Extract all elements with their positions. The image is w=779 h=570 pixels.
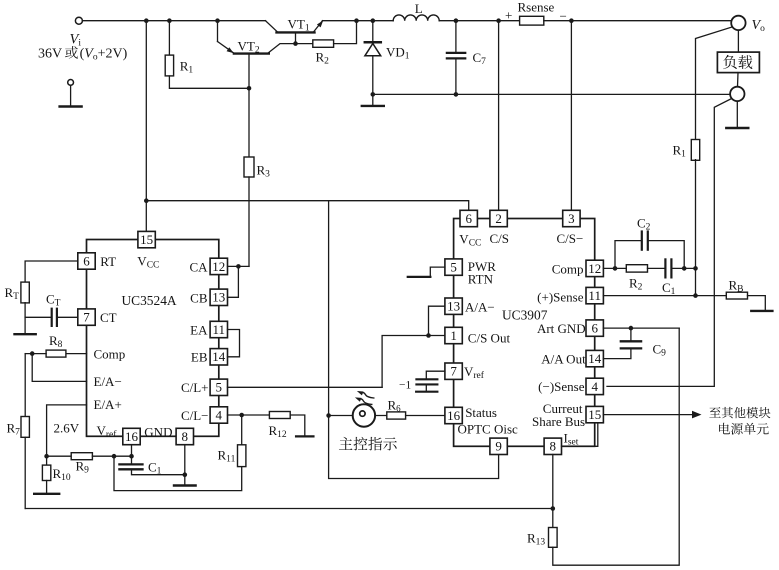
svg-text:C/S−: C/S−: [557, 231, 584, 246]
svg-text:CT: CT: [100, 310, 117, 325]
svg-text:RTN: RTN: [468, 272, 494, 287]
svg-text:Comp: Comp: [552, 261, 584, 276]
svg-text:15: 15: [588, 407, 601, 422]
svg-text:Vo: Vo: [752, 18, 766, 34]
svg-text:3: 3: [568, 211, 575, 226]
svg-text:R9: R9: [76, 458, 90, 475]
svg-text:R12: R12: [269, 423, 287, 440]
svg-text:1: 1: [450, 328, 457, 343]
svg-text:8: 8: [182, 429, 189, 444]
svg-text:R1: R1: [180, 59, 194, 76]
svg-text:C/L+: C/L+: [181, 380, 209, 395]
svg-text:R1: R1: [673, 143, 687, 160]
svg-text:R2: R2: [316, 50, 330, 67]
svg-text:E/A−: E/A−: [94, 374, 122, 389]
svg-text:5: 5: [216, 380, 223, 395]
svg-text:4: 4: [216, 407, 223, 422]
svg-text:12: 12: [588, 261, 601, 276]
svg-text:C7: C7: [473, 50, 487, 67]
svg-text:Rsense: Rsense: [518, 0, 555, 15]
svg-text:E/A+: E/A+: [94, 397, 122, 412]
svg-text:R8: R8: [49, 333, 63, 350]
svg-text:2: 2: [495, 211, 502, 226]
svg-text:VT1: VT1: [288, 16, 310, 33]
svg-text:CB: CB: [190, 290, 208, 305]
svg-text:(−)Sense: (−)Sense: [538, 379, 585, 394]
svg-text:4: 4: [591, 379, 598, 394]
svg-text:6: 6: [591, 321, 598, 336]
svg-text:RB: RB: [729, 278, 744, 295]
svg-text:C1: C1: [662, 280, 676, 297]
svg-text:C/S Out: C/S Out: [468, 330, 511, 345]
svg-text:−1: −1: [399, 380, 411, 392]
svg-text:R6: R6: [388, 398, 402, 414]
svg-text:13: 13: [447, 299, 460, 314]
svg-text:13: 13: [212, 290, 225, 305]
svg-text:14: 14: [588, 351, 602, 366]
svg-text:16: 16: [125, 429, 139, 444]
svg-text:C/S: C/S: [490, 231, 510, 246]
svg-text:R3: R3: [257, 163, 271, 180]
svg-text:7: 7: [450, 364, 457, 379]
svg-text:2.6V: 2.6V: [54, 420, 80, 435]
svg-text:8: 8: [550, 439, 557, 454]
svg-text:EB: EB: [191, 350, 208, 365]
svg-text:−: −: [560, 8, 567, 23]
svg-text:Share Bus: Share Bus: [532, 414, 585, 429]
svg-text:R11: R11: [218, 448, 236, 465]
svg-text:36V: 36V: [38, 47, 62, 62]
svg-text:(Vo+2V): (Vo+2V): [80, 47, 128, 63]
svg-text:VD1: VD1: [386, 45, 410, 62]
svg-text:UC3524A: UC3524A: [122, 293, 177, 308]
svg-text:A/A−: A/A−: [465, 299, 495, 314]
svg-text:R7: R7: [7, 420, 21, 437]
svg-text:Art GND: Art GND: [537, 321, 586, 336]
svg-text:EA: EA: [190, 322, 208, 337]
svg-text:11: 11: [213, 322, 226, 337]
svg-text:RT: RT: [100, 254, 116, 269]
svg-text:11: 11: [588, 288, 601, 303]
svg-text:14: 14: [212, 349, 226, 364]
svg-text:6: 6: [83, 253, 90, 268]
svg-text:GND: GND: [144, 424, 172, 439]
svg-text:C1: C1: [148, 460, 162, 477]
svg-text:9: 9: [495, 439, 502, 454]
svg-text:C/L−: C/L−: [181, 408, 209, 423]
svg-text:(+)Sense: (+)Sense: [537, 289, 584, 304]
svg-text:R10: R10: [53, 466, 71, 483]
svg-text:15: 15: [140, 232, 153, 247]
svg-text:L: L: [415, 1, 423, 16]
svg-text:RT: RT: [5, 285, 20, 302]
svg-text:+: +: [505, 8, 512, 23]
svg-text:A/A Out: A/A Out: [541, 352, 586, 367]
svg-text:OPTC Oisc: OPTC Oisc: [458, 422, 519, 437]
svg-text:12: 12: [212, 259, 225, 274]
svg-text:VT2: VT2: [238, 38, 260, 55]
svg-text:R13: R13: [527, 531, 545, 548]
svg-text:6: 6: [465, 211, 472, 226]
svg-text:CT: CT: [46, 292, 61, 309]
svg-text:CA: CA: [189, 259, 208, 274]
svg-text:5: 5: [450, 260, 457, 275]
svg-text:7: 7: [83, 310, 90, 325]
svg-text:R2: R2: [629, 276, 643, 293]
svg-text:C2: C2: [637, 216, 651, 233]
svg-text:Status: Status: [465, 405, 497, 420]
svg-text:C9: C9: [653, 342, 667, 359]
svg-text:Comp: Comp: [94, 346, 126, 361]
